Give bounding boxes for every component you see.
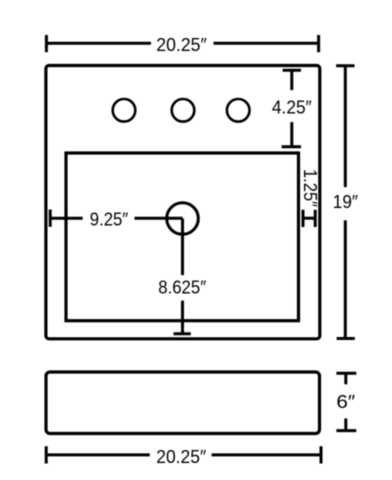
dimension 4.25in: upper vertical segment <box>290 70 293 90</box>
dimension 20.25in top: line right segment <box>214 42 319 45</box>
dimension 1.25in: connector line <box>303 217 315 220</box>
dimension 19in right: lower vertical segment <box>344 220 347 338</box>
dimension 4.25in: top tick bar <box>283 69 301 72</box>
dimension 20.25in bottom: line left segment <box>46 453 150 456</box>
dimension 8.625in: lower vertical segment <box>181 301 184 334</box>
svg-text:9.25″: 9.25″ <box>90 208 129 229</box>
dimension 1.25in: right tick <box>314 210 317 227</box>
dimension 19in right: top tick bar <box>336 64 354 67</box>
dimension 6in: bottom tick bar <box>336 429 356 432</box>
svg-text:20.25″: 20.25″ <box>156 34 207 55</box>
inner box (basin) <box>66 153 299 321</box>
dimension 8.625in: upper vertical segment <box>181 219 184 276</box>
svg-text:19″: 19″ <box>333 191 359 212</box>
dimension 6in: upper stub <box>344 373 347 384</box>
faucet hole center <box>172 99 195 122</box>
dimension 20.25in bottom: line right segment <box>212 453 321 456</box>
side view rectangle <box>46 372 320 434</box>
dimension 9.25in: line right segment <box>135 217 183 220</box>
svg-text:1.25″: 1.25″ <box>300 169 321 207</box>
dimension 20.25in bottom: left tick <box>45 446 48 463</box>
faucet hole left <box>113 99 136 122</box>
dimension 9.25in: left tick <box>49 210 52 227</box>
svg-text:8.625″: 8.625″ <box>158 277 206 298</box>
dimension 8.625in: bottom tick bar <box>174 332 191 335</box>
dimension 20.25in top: left tick <box>45 35 48 52</box>
dimension 4.25in: bottom tick bar <box>282 145 301 148</box>
drain circle <box>167 203 199 235</box>
dimension 20.25in bottom: right tick <box>320 446 323 463</box>
svg-text:4.25″: 4.25″ <box>272 96 312 117</box>
dimension 4.25in: lower vertical segment <box>290 122 293 147</box>
dimension 6in: lower stub <box>344 418 347 430</box>
svg-text:6″: 6″ <box>336 391 355 412</box>
dimension 19in right: upper vertical segment <box>344 66 347 187</box>
dimension 9.25in: line left segment <box>50 217 82 220</box>
dimension 1.25in: left tick <box>302 210 305 227</box>
dimension 19in right: bottom tick bar <box>337 337 355 340</box>
dimension 20.25in top: right tick <box>317 35 320 52</box>
outer box (sink top view) <box>46 66 320 339</box>
dimension 6in: top tick bar <box>336 372 356 375</box>
faucet hole right <box>227 99 250 122</box>
dimension 20.25in top: line left segment <box>46 42 151 45</box>
svg-text:20.25″: 20.25″ <box>156 446 206 467</box>
